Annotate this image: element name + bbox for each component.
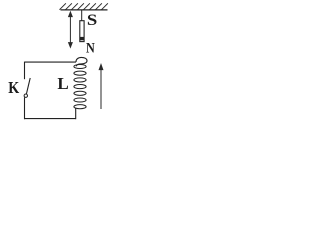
inductor L : turn 7 (74, 105, 86, 109)
wire: top side of circuit (25, 61, 77, 63)
inductor L : turn 2 (74, 71, 86, 75)
ceiling line (61, 9, 108, 11)
magnet N pole dark tip (80, 37, 84, 40)
string suspending magnet (81, 10, 83, 21)
wire: stub from coil to bottom wire (75, 108, 77, 119)
induced motion arrow (up) beside coil (99, 65, 103, 110)
switch pivot circle (24, 94, 27, 97)
svg-text:K: K (8, 78, 20, 97)
switch K blade (26, 78, 30, 94)
wire: left side lower (24, 97, 26, 119)
svg-text:L: L (57, 74, 68, 93)
inductor L : turn 5 (74, 91, 86, 95)
inductor L : turn 6 (74, 98, 86, 102)
inductor L : turn 3 (74, 78, 86, 82)
svg-text:S: S (87, 12, 97, 29)
inductor L : turn 1 (74, 64, 86, 68)
bar magnet body (80, 21, 84, 42)
oscillation double arrow (69, 12, 73, 47)
svg-text:N: N (86, 40, 95, 56)
wire: bottom side of circuit (24, 118, 76, 120)
ceiling hatching (60, 3, 108, 9)
wire: left side upper (24, 62, 26, 80)
inductor L : top entry loop (76, 57, 87, 66)
inductor L : turn 4 (74, 85, 86, 89)
